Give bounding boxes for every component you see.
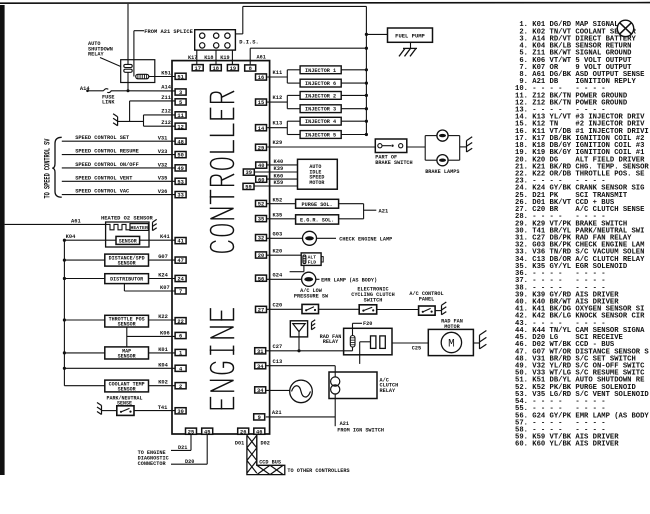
EMR lamp	[302, 272, 316, 286]
pin 59	[243, 183, 254, 189]
connector D.I.S. terminal circle r1c1	[200, 33, 205, 38]
brake lamps left bracket	[424, 136, 426, 161]
heater label box	[130, 224, 148, 231]
wire motor to ground	[473, 342, 479, 344]
node junction map	[63, 351, 66, 354]
ground brake lamps (E style)	[466, 141, 468, 152]
svg-text:E.G.R. SOL.: E.G.R. SOL.	[300, 218, 334, 224]
rad fan motor box	[428, 329, 473, 355]
purge solenoid box	[296, 199, 339, 208]
svg-text:T41: T41	[158, 405, 168, 411]
svg-text:LINK: LINK	[102, 100, 115, 106]
svg-text:SENSOR: SENSOR	[118, 386, 136, 392]
knock sensor sine	[292, 386, 311, 397]
wire Z ground link	[118, 120, 144, 122]
pin 31	[255, 348, 266, 354]
pin 29	[256, 144, 267, 150]
wire top interconnect	[243, 5, 367, 7]
svg-text:SPEED CONTROL VENT: SPEED CONTROL VENT	[75, 175, 133, 181]
pin 27	[256, 306, 267, 312]
wire map to bus	[64, 352, 104, 354]
svg-text:EMR LAMP (AS BODY): EMR LAMP (AS BODY)	[321, 278, 377, 284]
svg-text:11: 11	[177, 113, 183, 119]
rad fan relay coil	[350, 336, 355, 348]
svg-text:47: 47	[177, 258, 183, 264]
svg-text:7: 7	[179, 289, 182, 295]
pin 48	[175, 138, 186, 144]
svg-text:16: 16	[258, 75, 264, 81]
wire K06	[127, 335, 175, 337]
ground fuel pump stub	[410, 42, 412, 48]
wire purge/EGR bracket	[339, 203, 364, 205]
wire G07	[149, 259, 176, 261]
wire D21	[190, 434, 192, 451]
svg-text:40: 40	[258, 163, 264, 169]
wire D02 riser	[256, 434, 258, 465]
wire Z11	[130, 100, 176, 102]
wire injector collector	[365, 6, 367, 134]
pin 60	[256, 176, 267, 182]
svg-text:K22: K22	[158, 314, 168, 320]
svg-text:K41: K41	[160, 234, 170, 240]
svg-text:F20: F20	[363, 321, 372, 327]
svg-text:33: 33	[177, 193, 183, 199]
svg-text:K07: K07	[160, 285, 170, 291]
wire K17 stub	[196, 50, 198, 65]
svg-text:Z12: Z12	[161, 120, 171, 126]
svg-text:K51: K51	[161, 70, 171, 76]
svg-text:RELAY: RELAY	[88, 52, 104, 58]
svg-text:48: 48	[177, 139, 183, 145]
injector box INJECTOR 1	[300, 66, 341, 74]
wire INJECTOR 3 to collector	[341, 108, 366, 110]
wire K35	[267, 218, 296, 220]
svg-text:CCD BUS: CCD BUS	[259, 460, 281, 466]
brake lamp 1	[437, 130, 448, 141]
wire K40	[267, 164, 298, 166]
connector D.I.S. terminal circle r1c3	[225, 33, 230, 38]
svg-text:K12: K12	[273, 95, 283, 101]
pin 47	[175, 257, 186, 263]
wire distance to bus	[64, 259, 104, 261]
connector D.I.S. terminal circle r2c3	[225, 43, 230, 48]
pin 30	[175, 408, 186, 414]
wire relay L-wire	[359, 342, 361, 364]
svg-text:HEATED O2 SENSOR: HEATED O2 SENSOR	[101, 215, 154, 221]
wire K60	[267, 178, 298, 180]
svg-text:D20: D20	[185, 459, 194, 465]
node junction A61/collector	[365, 47, 368, 50]
svg-text:41: 41	[177, 239, 183, 245]
wire A61 riser from pin 8	[249, 48, 251, 65]
wire cycling to panel	[377, 309, 419, 311]
wire to fuel pump	[366, 33, 387, 35]
svg-text:V31: V31	[158, 136, 168, 142]
svg-text:K04: K04	[66, 234, 76, 240]
svg-text:18: 18	[213, 66, 219, 72]
svg-text:19: 19	[230, 66, 236, 72]
svg-text:SPEED CONTROL RESUME: SPEED CONTROL RESUME	[75, 149, 139, 155]
svg-text:FROM A21 SPLICE: FROM A21 SPLICE	[144, 29, 193, 35]
wire brake switch to lamps	[407, 146, 425, 148]
svg-text:SENSOR: SENSOR	[118, 353, 136, 359]
svg-text:INJECTOR 1: INJECTOR 1	[305, 68, 336, 74]
svg-text:49: 49	[177, 166, 183, 172]
svg-text:K11: K11	[273, 70, 283, 76]
node junction A14/relay	[127, 89, 130, 92]
rad fan diode box	[290, 321, 307, 337]
svg-text:24: 24	[177, 277, 184, 283]
svg-text:34: 34	[257, 364, 264, 370]
brake switch blade	[382, 145, 391, 147]
pin 8	[245, 65, 256, 71]
wire K04 return	[64, 367, 175, 369]
svg-text:34: 34	[257, 388, 264, 394]
wire lp to cycling switch	[319, 308, 360, 310]
pin 14	[256, 125, 267, 131]
pin 26	[238, 428, 249, 434]
wire coil bottom stub	[352, 347, 354, 351]
pin 33	[175, 192, 186, 198]
svg-text:INJECTOR 2: INJECTOR 2	[305, 93, 336, 99]
node junction INJECTOR 3	[365, 107, 368, 110]
pin 25	[186, 428, 197, 434]
pin 16	[256, 74, 267, 80]
svg-text:C20: C20	[273, 303, 283, 309]
rad fan motor circle	[441, 332, 461, 352]
injector box INJECTOR 5	[300, 131, 341, 139]
border frame left black bar	[0, 5, 5, 475]
pin 15	[256, 99, 267, 105]
svg-text:15: 15	[258, 100, 264, 106]
svg-text:K19: K19	[220, 55, 229, 61]
wire K59	[247, 185, 298, 187]
a/c clutch relay coil	[331, 377, 340, 386]
svg-text:TO OTHER CONTROLLERS: TO OTHER CONTROLLERS	[287, 468, 349, 474]
wire relay output C25	[392, 342, 428, 344]
wire T41	[134, 410, 175, 412]
ground diode (E style)	[311, 322, 313, 329]
svg-text:V32: V32	[158, 162, 168, 168]
rad fan diode triangle	[293, 324, 305, 332]
pin 51	[175, 73, 186, 79]
pin 9	[254, 414, 265, 420]
pin 11	[175, 112, 186, 118]
node junction K04 bus top	[63, 239, 66, 242]
heater element square wave	[106, 224, 130, 229]
brake lamps right bracket	[459, 136, 461, 161]
node junction INJECTOR 4	[365, 120, 368, 123]
wire K01	[149, 352, 176, 354]
svg-text:HEATER: HEATER	[131, 225, 148, 231]
CCD bus hatched band outline	[247, 435, 285, 474]
svg-text:RELAY: RELAY	[380, 388, 396, 394]
svg-text:K24: K24	[158, 273, 168, 279]
svg-text:K06: K06	[160, 331, 170, 337]
node junction INJECTOR 1	[365, 68, 368, 71]
wire INJECTOR 5 to collector	[341, 134, 366, 136]
pin 4	[175, 365, 186, 371]
wire INJECTOR 2 to collector	[341, 94, 366, 96]
heated O2 sensor outer box	[106, 222, 149, 247]
svg-text:G03: G03	[273, 232, 283, 238]
wire SPEED CONTROL VENT	[62, 180, 175, 182]
svg-text:14: 14	[258, 126, 265, 132]
svg-text:K59: K59	[274, 180, 284, 186]
wire INJECTOR 6 to collector	[341, 82, 366, 84]
injector box INJECTOR 6	[300, 79, 341, 87]
svg-text:INJECTOR 4: INJECTOR 4	[305, 119, 336, 125]
wire A21 ign	[266, 416, 335, 418]
wire relay contact feed	[127, 4, 129, 64]
pin 22	[175, 318, 186, 324]
svg-text:30: 30	[177, 409, 183, 415]
svg-text:SWITCH: SWITCH	[364, 297, 383, 303]
pin 2	[175, 383, 186, 389]
wire lamp to label	[317, 237, 337, 239]
rad fan relay box	[344, 328, 392, 355]
svg-text:60: 60	[258, 177, 264, 183]
svg-text:A21: A21	[340, 421, 349, 427]
coolant temp sensor box	[105, 380, 149, 392]
wire K19 stub	[231, 50, 233, 65]
svg-text:FUEL PUMP: FUEL PUMP	[395, 33, 425, 40]
svg-text:A21: A21	[272, 410, 282, 416]
svg-text:CONNECTOR: CONNECTOR	[138, 461, 167, 467]
a/c clutch relay box	[329, 372, 377, 399]
svg-text:RELAY: RELAY	[323, 339, 339, 345]
wire clutch coil to A21	[334, 399, 336, 427]
pin 17	[192, 65, 203, 71]
svg-text:12: 12	[177, 124, 183, 130]
a/c control panel box	[419, 306, 436, 315]
svg-text:8: 8	[249, 66, 252, 72]
svg-text:K01: K01	[158, 347, 168, 353]
wire SPEED CONTROL RESUME	[62, 154, 175, 156]
svg-text:9: 9	[258, 415, 261, 421]
wire K41 sensor to pin	[140, 239, 176, 241]
svg-text:C25: C25	[412, 346, 421, 352]
node junction INJECTOR 2	[365, 94, 368, 97]
svg-text:56: 56	[258, 276, 264, 282]
svg-text:D01: D01	[235, 441, 244, 447]
wire riser to DIS connector	[242, 6, 244, 34]
o2 sensor inner box	[116, 236, 140, 244]
ground Z12 (E style)	[117, 117, 119, 126]
wire K22	[149, 319, 176, 321]
node junction distributor	[63, 277, 66, 280]
svg-text:D02: D02	[261, 441, 270, 447]
svg-text:MOTOR: MOTOR	[309, 180, 324, 186]
wire bracket to A21	[364, 209, 377, 211]
svg-text:K35: K35	[273, 213, 283, 219]
svg-text:26: 26	[240, 429, 246, 435]
wire panel to ground	[435, 310, 441, 312]
wire lamps to ground	[460, 146, 467, 148]
pin 49	[175, 165, 186, 171]
pin 7	[175, 288, 186, 294]
node junction fuel pump	[365, 33, 368, 36]
pin 6	[175, 332, 186, 338]
svg-text:K13: K13	[273, 121, 283, 127]
wire coolant to bus	[64, 385, 104, 387]
check engine lamp	[303, 231, 317, 245]
wire C13	[267, 365, 336, 367]
wire C20	[267, 308, 303, 310]
pin 5	[175, 99, 186, 105]
node junction INJECTOR 6	[365, 82, 368, 85]
svg-text:C27: C27	[273, 344, 283, 350]
svg-text:PURGE SOL.: PURGE SOL.	[302, 202, 333, 208]
svg-text:V33: V33	[158, 149, 168, 155]
wire coil to pin 51	[149, 76, 175, 78]
injector box INJECTOR 2	[300, 92, 341, 100]
connector D.I.S. box	[195, 30, 236, 50]
wire K04 to sensor	[64, 239, 116, 241]
auto shutdown relay box	[121, 60, 155, 83]
node junction diode/C27	[297, 349, 300, 352]
svg-text:G24: G24	[273, 273, 283, 279]
wire Z12 pin11	[144, 114, 176, 116]
injector box INJECTOR 3	[300, 105, 341, 113]
ground park/neutral (E style)	[101, 406, 103, 415]
pointer line to relay	[100, 58, 121, 67]
wire G24	[267, 278, 302, 280]
wire to knock sensor	[267, 389, 290, 391]
distributor box	[105, 274, 149, 284]
svg-text:K20: K20	[273, 249, 283, 255]
pin 34b	[255, 387, 266, 393]
electronic cycling clutch switch box	[359, 305, 377, 314]
node junction tps	[63, 318, 66, 321]
wire G03	[267, 237, 303, 239]
wire K12 bracket	[286, 95, 288, 108]
svg-text:50: 50	[177, 153, 183, 159]
throttle pos sensor box	[105, 315, 149, 327]
alt field coil	[303, 255, 306, 264]
svg-text:60. K60 YL/BK AIS DRIVER: 60. K60 YL/BK AIS DRIVER	[515, 441, 619, 449]
svg-text:C13: C13	[273, 359, 283, 365]
node junction INJECTOR 5	[365, 133, 368, 136]
svg-text:22: 22	[177, 319, 183, 325]
svg-text:K04: K04	[158, 362, 168, 368]
injector box INJECTOR 4	[300, 117, 341, 125]
wire EMR lamp stub	[316, 278, 320, 280]
svg-text:D21: D21	[178, 445, 187, 451]
svg-text:59: 59	[245, 185, 251, 191]
pin 52	[256, 200, 267, 206]
svg-text:M: M	[448, 339, 455, 351]
svg-text:K40: K40	[274, 159, 284, 165]
svg-text:PANEL: PANEL	[419, 297, 435, 303]
pin 46	[254, 428, 265, 434]
border frame top line	[0, 2, 650, 5]
brace speed control	[52, 137, 62, 197]
svg-text:20: 20	[258, 253, 264, 259]
wire from A21 splice elbow	[134, 30, 144, 32]
wire contact to A14	[127, 72, 129, 91]
distance/spd sensor box	[105, 254, 149, 266]
pin 41	[175, 238, 186, 244]
pin 24	[175, 275, 186, 281]
wire K20	[267, 254, 302, 256]
connector D.I.S. terminal circle r2c1	[200, 43, 205, 48]
alt field tab	[321, 257, 323, 262]
svg-text:6: 6	[179, 334, 182, 340]
engine controller label CONTROLLER	[211, 92, 234, 103]
wire distributor to bus	[64, 278, 104, 280]
svg-text:G07: G07	[158, 254, 168, 260]
svg-text:29: 29	[258, 145, 264, 151]
pin 45	[202, 428, 213, 434]
svg-text:53: 53	[177, 179, 183, 185]
EGR solenoid box	[296, 215, 339, 224]
svg-text:52: 52	[258, 202, 264, 208]
wire A61 long	[5, 223, 106, 225]
fuel pump box	[388, 28, 433, 42]
svg-text:K02: K02	[158, 380, 168, 386]
svg-text:K60: K60	[274, 173, 284, 179]
pin 50	[175, 152, 186, 158]
svg-text:39: 39	[246, 170, 252, 176]
relay K51 coil	[136, 74, 149, 79]
pin 34a	[255, 363, 266, 369]
pin 32	[256, 235, 267, 241]
svg-text:31: 31	[257, 349, 263, 355]
wire SPEED CONTROL ON/OFF	[62, 167, 175, 169]
brake lamp 2	[437, 155, 448, 166]
engine controller U1 outline	[172, 61, 270, 434]
svg-text:2: 2	[179, 384, 182, 390]
svg-text:32: 32	[258, 236, 264, 242]
svg-text:SPEED CONTROL VAC: SPEED CONTROL VAC	[75, 189, 130, 195]
svg-text:K39: K39	[274, 166, 284, 172]
svg-text:Z12: Z12	[161, 109, 171, 115]
wire K13 pin to bracket	[267, 127, 287, 129]
wire sensor return bus	[63, 240, 65, 386]
svg-text:FLD: FLD	[308, 260, 317, 266]
part of brake switch box	[375, 139, 407, 153]
ground O2 heater (E style)	[152, 222, 154, 230]
svg-text:A61: A61	[71, 219, 81, 225]
wire K11 pin to bracket	[267, 76, 287, 78]
pin 12	[175, 123, 186, 129]
legend wire list	[515, 21, 649, 448]
pin 1	[175, 349, 186, 355]
relay K51 contact bar 1	[124, 64, 132, 67]
rad fan diode stem	[298, 332, 300, 351]
svg-text:BRAKE LAMPS: BRAKE LAMPS	[425, 169, 459, 175]
svg-text:K29: K29	[273, 140, 283, 146]
pin 39	[243, 169, 254, 175]
pin 40	[256, 162, 267, 168]
wire Z12 pin12	[144, 125, 176, 127]
pin 18	[210, 65, 221, 71]
svg-text:35: 35	[258, 217, 264, 223]
svg-text:SENSOR: SENSOR	[118, 261, 136, 267]
auto idle speed motor box	[298, 159, 338, 189]
ground rad fan motor (E style)	[479, 335, 481, 349]
svg-text:3: 3	[179, 90, 182, 96]
wire A14 w/ fuse link	[86, 90, 89, 93]
pin 53	[175, 178, 186, 184]
wire K18 stub	[215, 50, 217, 65]
svg-text:SENSOR: SENSOR	[118, 322, 136, 328]
svg-text:Z11: Z11	[161, 95, 171, 101]
wire D20	[206, 434, 208, 465]
svg-text:V36: V36	[158, 189, 168, 195]
pin 20	[256, 252, 267, 258]
